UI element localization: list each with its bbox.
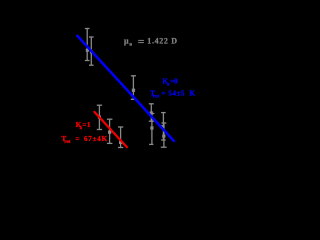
- marker A: [86, 49, 89, 52]
- marker H2: [162, 135, 165, 138]
- marker G: [119, 141, 122, 144]
- svg-text:rot: rot: [153, 94, 160, 99]
- svg-text:=: =: [82, 120, 86, 129]
- error bar G: [118, 127, 123, 148]
- red label: Trot = 67+-4 K: [61, 134, 107, 145]
- marker B: [90, 50, 93, 53]
- error bar B: [89, 37, 94, 65]
- svg-text:K: K: [102, 134, 108, 143]
- error bar H1: [161, 113, 166, 140]
- error bar F: [107, 119, 113, 143]
- svg-text:67±4: 67±4: [84, 135, 102, 143]
- svg-text:=: =: [161, 88, 165, 97]
- marker H1: [161, 125, 164, 128]
- marker F: [108, 131, 111, 134]
- marker J1: [150, 111, 153, 114]
- svg-text:1: 1: [87, 120, 91, 129]
- svg-text:μ: μ: [124, 37, 129, 46]
- marker E: [98, 115, 101, 118]
- error bar H2: [161, 123, 167, 147]
- blue label: Trot = 54+-5 K: [150, 88, 195, 99]
- svg-text:=: =: [75, 134, 79, 143]
- red label: Ka=1: [76, 120, 91, 131]
- svg-text:K: K: [189, 88, 195, 97]
- svg-text:D: D: [171, 37, 177, 46]
- svg-text:1.422: 1.422: [147, 37, 168, 46]
- error bar J2: [149, 114, 154, 145]
- gray label: mu_a = 1.422 D: [124, 37, 177, 48]
- error bar E: [97, 105, 102, 129]
- blue label: Ka=0: [162, 77, 178, 88]
- error bar C: [131, 76, 136, 100]
- error bar J1: [149, 104, 154, 121]
- marker J2: [150, 126, 153, 129]
- svg-text:54±5: 54±5: [168, 89, 185, 97]
- marker C: [132, 89, 135, 92]
- blue fit line (Ka=0): [77, 36, 174, 141]
- svg-text:0: 0: [174, 77, 178, 86]
- error bar A: [85, 29, 90, 61]
- svg-text:a: a: [129, 42, 132, 48]
- svg-text:rot: rot: [64, 140, 71, 145]
- red fit line (Ka=1): [94, 112, 127, 147]
